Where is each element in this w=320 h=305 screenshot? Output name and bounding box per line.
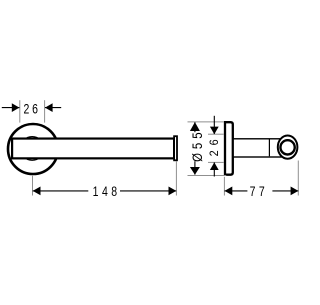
dim 26 (side): bottom extension line [208,161,224,163]
dim 148: left dimension line segment [33,190,89,192]
dim 77: left dimension line segment [225,190,248,192]
dim 77: label [250,184,269,200]
dim 26 (side): top arrow [210,127,219,135]
dim Ø55: top extension line [188,121,224,123]
dim 77: left extension line [223,177,225,196]
dim Ø55: bottom arrow [190,167,200,175]
front view: rosette circle [8,124,58,174]
side view: ring inner (bar cross-section) [280,140,294,154]
dim 26 (side): top dimension line [213,116,215,134]
side view: arm [233,139,287,157]
svg-text:148: 148 [93,184,121,200]
dim 148: right arrow [169,187,177,196]
dim Ø55: top arrow [190,122,200,131]
dim 77: right arrow [291,187,299,196]
dim 148: left extension line [32,176,34,196]
dim 77: left arrow [225,187,233,196]
dim 26 (front): left dimension line [2,107,20,109]
dim 26 (side): bottom arrow [210,162,219,170]
dim 77: right dimension line segment [272,190,298,192]
dim 148: right extension line [175,161,177,195]
dim 26 (front): left extension line [19,100,21,122]
side view: ring outer (end cap seen from side) [278,136,298,159]
dim Ø55: top dimension line stub [194,122,196,132]
svg-text:26: 26 [24,101,41,117]
front view: hub circle (inner rosette circle) [20,137,44,161]
front view: bar end cap [174,136,177,160]
front view: bar body [12,139,174,159]
dim 26 (front): left arrow [12,103,20,112]
svg-text:Ø55: Ø55 [190,129,205,162]
svg-text:77: 77 [250,184,269,200]
dim 148: left arrow [33,187,41,196]
dim 26 (side): bottom dimension line [213,162,215,176]
dim 26 (side): top extension line [208,133,224,135]
dim Ø55: bottom dimension line stub [194,161,196,174]
dim 77: right extension line [297,161,299,196]
dim Ø55: bottom extension line [188,175,227,177]
dim 26 (front): right dimension line [45,107,61,109]
dim 148: right dimension line segment [120,190,176,192]
dim 26 (front): right extension line [44,100,46,122]
dim 26 (front): right arrow [45,103,53,112]
svg-text:26: 26 [208,134,221,156]
dim 148: label [93,184,121,200]
dim 26 (front): label [24,101,41,117]
side view: arm end separator line [268,140,270,157]
side view: wall plate [225,122,233,175]
